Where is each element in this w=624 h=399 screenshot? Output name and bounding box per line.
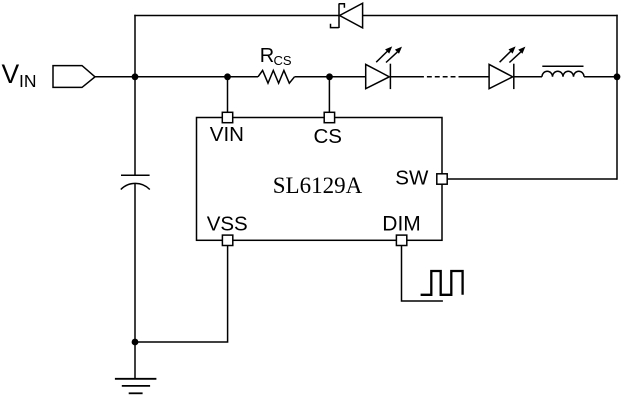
pin VSS: [222, 235, 232, 245]
wire resistor to node C: [295, 76, 330, 78]
wire node A to capacitor: [134, 77, 136, 176]
capacitor C1 (curved bottom plate): [121, 183, 150, 189]
wire capacitor to ground node: [134, 184, 136, 342]
wire inductor to node D: [584, 76, 617, 78]
inductor L1: [542, 66, 584, 77]
wire LED D2 to dashed gap: [390, 76, 419, 78]
svg-text:SW: SW: [395, 167, 429, 190]
svg-text:CS: CS: [274, 53, 292, 68]
wire pin VSS to ground node: [135, 246, 228, 343]
capacitor C1 (top plate): [121, 174, 150, 176]
pin SW label: [395, 167, 429, 190]
junction node A: [132, 73, 139, 80]
pin DIM label: [382, 213, 421, 236]
node VIN label: [2, 59, 37, 91]
wire right rail (top corner down to SW wire): [616, 15, 618, 180]
svg-text:SL6129A: SL6129A: [273, 173, 363, 198]
wire VIN terminal to node A: [95, 76, 135, 78]
svg-text:CS: CS: [314, 125, 342, 148]
junction node D: [614, 73, 621, 80]
svg-text:DIM: DIM: [382, 213, 421, 236]
pin VSS label: [207, 213, 248, 236]
svg-text:R: R: [260, 45, 274, 67]
wire pin DIM to PWM source: [402, 246, 443, 302]
pin VIN label: [210, 123, 244, 146]
PWM signal symbol: [421, 271, 463, 295]
LED D3: [489, 46, 525, 89]
svg-text:VIN: VIN: [210, 123, 244, 146]
ground: [115, 379, 156, 394]
diode D1 (Schottky, top): [331, 3, 363, 28]
svg-text:V: V: [2, 59, 20, 89]
wire left rail top (node A up to top rail): [134, 15, 136, 77]
wire LED D3 to inductor: [514, 76, 542, 78]
wire node C to pin CS: [328, 77, 330, 113]
wire node A to node B: [135, 76, 228, 78]
wire top rail right segment: [363, 15, 618, 17]
wire node B to pin VIN: [227, 77, 229, 113]
wire top rail left segment: [134, 15, 339, 17]
wire pin SW to right rail: [447, 178, 617, 180]
svg-text:VSS: VSS: [207, 213, 248, 236]
pin VIN: [222, 112, 232, 122]
pin DIM: [396, 235, 406, 245]
junction node B: [224, 73, 231, 80]
wire dashed (omitted LEDs): [419, 76, 463, 78]
wire node B to resistor: [228, 76, 259, 78]
junction ground node: [132, 339, 139, 346]
pin CS: [324, 112, 334, 122]
input terminal VIN: [53, 66, 95, 88]
IC U1 SL6129A body: [197, 118, 443, 241]
wire dashed gap to LED D3: [463, 76, 489, 78]
IC U1 part number label: [273, 173, 363, 198]
pin SW: [437, 174, 447, 184]
resistor RCS: [258, 70, 295, 83]
LED D2: [366, 46, 402, 89]
junction node C: [326, 73, 333, 80]
wire node C to LED D2: [330, 76, 366, 78]
svg-text:IN: IN: [19, 71, 37, 91]
pin CS label: [314, 125, 342, 148]
resistor RCS value label: [260, 45, 292, 68]
wire ground node to ground symbol: [134, 342, 136, 379]
